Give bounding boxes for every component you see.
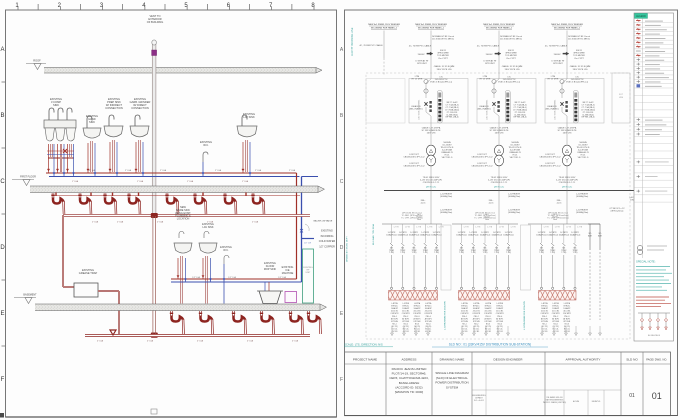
svg-text:1-TYB: 1-TYB (405, 227, 411, 229)
svg-text:INCOMING FDR PANEL-1: INCOMING FDR PANEL-1 (371, 27, 398, 30)
svg-text:(2R NO-2L): (2R NO-2L) (494, 187, 505, 189)
svg-text:100A/3P: 100A/3P (425, 307, 433, 310)
group 1 LT distribution bus (382, 223, 442, 225)
svg-text:SLD NO : 01 (33KV/415V DISTRIB: SLD NO : 01 (33KV/415V DISTRIBUTION SUB-… (449, 343, 531, 347)
vent cap (152, 50, 157, 56)
svg-text:100A/3P: 100A/3P (391, 307, 399, 310)
feeder column 3 metering arrow (483, 50, 517, 65)
svg-text:1" DIA: 1" DIA (187, 180, 194, 183)
svg-text:A: A (0, 47, 4, 53)
svg-text:TC: 1PH. (3P/DswtDsw): TC: 1PH. (3P/DswtDsw) (547, 217, 569, 220)
svg-text:L-BTPA: L-BTPA (541, 302, 548, 305)
group 1 outgoing circuit labels (391, 302, 433, 333)
group 2 branch breaker 5 (503, 224, 516, 289)
svg-text:L-BTPA: L-BTPA (497, 302, 504, 305)
svg-text:100A/3P: 100A/3P (541, 307, 549, 310)
group 3 LT busbar (hatched) (539, 291, 577, 301)
group 2 branch breaker 4 (492, 224, 505, 289)
svg-text:(BB-1 RATED): (BB-1 RATED) (546, 108, 559, 111)
svg-text:RE: ABMS 4F/LGB: RE: ABMS 4F/LGB (547, 396, 564, 399)
cold feed risers at mop sink (192, 276, 286, 291)
feeder column 2 metering arrow (415, 50, 449, 65)
legend transformer symbol cell (637, 245, 667, 254)
svg-text:[WRAPON TD: 0000]: [WRAPON TD: 0000] (395, 390, 423, 394)
svg-text:AT B1F1: AT B1F1 (425, 317, 432, 320)
svg-text:OF BUILDING: OF BUILDING (147, 20, 164, 24)
svg-text:LT MTR AT HT: LT MTR AT HT (551, 60, 565, 63)
svg-text:URE: URE (619, 97, 624, 99)
svg-text:BUS BAR: TPN 800A: BUS BAR: TPN 800A (372, 224, 375, 245)
sld title note (432, 343, 548, 348)
fixture: existing ice machine (282, 266, 297, 303)
page corner mark (0, 413, 4, 418)
group 1 LT busbar (hatched) (389, 291, 438, 301)
svg-text:MTR UNIT: MTR UNIT (485, 63, 495, 65)
approval authority sub-cells (543, 390, 621, 416)
svg-text:T: 4R): T: 4R) (434, 252, 439, 254)
fixture: existing wc lower (220, 246, 232, 304)
svg-text:C/W PB FLD C C1: C/W PB FLD C C1 (423, 182, 440, 184)
svg-text:100A(3P)sub: 100A(3P)sub (409, 233, 420, 236)
svg-text:COLD WATER: COLD WATER (319, 240, 336, 243)
transformer T2 nameplate text (471, 141, 522, 168)
transformer T2 LV cable text (488, 166, 510, 190)
HT switchgear panel at x=477 (477, 73, 536, 123)
svg-text:FIRST FLOOR: FIRST FLOOR (20, 176, 36, 179)
svg-text:NEW 4x1 95RM, 11KV FEEDER: NEW 4x1 95RM, 11KV FEEDER (483, 24, 515, 26)
supply stop valves (47, 169, 251, 175)
svg-text:100A(3P)sub: 100A(3P)sub (503, 233, 514, 236)
svg-text:L-BTPA: L-BTPA (564, 302, 571, 305)
design engineer sub-cells (472, 364, 545, 416)
svg-text:NEW 4x1 95RM, 11KV FEEDER: NEW 4x1 95RM, 11KV FEEDER (368, 24, 400, 26)
right sheet border frame (345, 10, 678, 416)
group 1 branch breaker 2 (398, 224, 411, 289)
group 1 branch breaker 1 (386, 224, 399, 289)
svg-text:11KV XLPE U/G: 11KV XLPE U/G (572, 69, 587, 71)
cable label above transformer T2 (490, 123, 510, 144)
svg-text:100A(3P)sub: 100A(3P)sub (456, 233, 467, 236)
svg-text:11KV 630A VCB PANEL: 11KV 630A VCB PANEL (486, 100, 489, 120)
svg-text:E/F REL (3B-4): E/F REL (3B-4) (514, 117, 527, 119)
svg-text:LEGEND: LEGEND (636, 15, 646, 18)
cable label above transformer T1 (422, 123, 442, 144)
svg-text:CABLE: 3C 95 SQMM: CABLE: 3C 95 SQMM (570, 65, 591, 68)
drop-end ground marks along bottom (391, 326, 602, 336)
svg-text:4C, 70 RM PVC CABLE: 4C, 70 RM PVC CABLE (477, 45, 500, 48)
fixture: existing garb grinder w/ direct connection (130, 97, 151, 177)
HT panel empty bay (366, 79, 405, 124)
svg-text:L-BTPA: L-BTPA (391, 302, 398, 305)
svg-text:AT B1F1: AT B1F1 (541, 317, 548, 320)
svg-text:NEW 4x1 95RM, 11KV FEEDER: NEW 4x1 95RM, 11KV FEEDER (551, 24, 583, 26)
svg-text:11KV U/G: 11KV U/G (563, 133, 572, 135)
svg-text:AT B1F1: AT B1F1 (461, 317, 468, 320)
fixture: new ware sink (174, 206, 192, 304)
drain labels basement (97, 340, 299, 343)
svg-text:11KV XLPE U/G: 11KV XLPE U/G (436, 69, 451, 71)
svg-text:CBI-B3x2/3mt 3PT+1x2: CBI-B3x2/3mt 3PT+1x2 (403, 156, 425, 159)
svg-text:4C, 70 RM PVC CABLE: 4C, 70 RM PVC CABLE (359, 44, 383, 47)
svg-text:GREASE TRAP: GREASE TRAP (79, 271, 98, 275)
svg-text:SAH ENGINEERING: SAH ENGINEERING (546, 399, 564, 402)
svg-text:1-TYB: 1-TYB (499, 227, 505, 229)
svg-text:1" DIA: 1" DIA (72, 180, 79, 183)
svg-text:(2R NO-2L): (2R NO-2L) (426, 187, 437, 189)
svg-text:(2R NO-2L): (2R NO-2L) (562, 187, 573, 189)
svg-text:T: 4R): T: 4R) (494, 252, 499, 254)
svg-text:11000V: 11000V (417, 54, 425, 56)
pipe size labels on mains (72, 169, 296, 183)
svg-text:11000V: 11000V (485, 54, 493, 56)
svg-text:1/2" COPPER: 1/2" COPPER (319, 245, 335, 248)
svg-text:100A(3P)sub: 100A(3P)sub (492, 233, 503, 236)
svg-text:1/2" CW: 1/2" CW (304, 243, 311, 245)
svg-text:T: 4R): T: 4R) (561, 252, 566, 254)
svg-text:CBI-B3x2/3mt 3PT+1x2: CBI-B3x2/3mt 3PT+1x2 (471, 165, 493, 168)
svg-text:PACIFIC JEANS (LIMITED): PACIFIC JEANS (LIMITED) (543, 401, 567, 404)
svg-text:L-BTPA: L-BTPA (414, 302, 421, 305)
title block headers (353, 357, 667, 361)
svg-text:11000V: 11000V (553, 54, 561, 56)
transformer T3 LV cable text (556, 166, 578, 190)
svg-text:BANGLADESH: BANGLADESH (399, 381, 420, 385)
group 3 LT distribution bus (528, 223, 588, 225)
fixture: existing hand sink (83, 114, 101, 177)
svg-text:VECTOR: D: VECTOR: D (578, 157, 589, 159)
cable label above transformer T3 (558, 123, 578, 144)
svg-text:LT MTR AT HT: LT MTR AT HT (483, 60, 497, 63)
svg-text:4-LT): 4-LT) (421, 203, 426, 205)
svg-text:4" DIA: 4" DIA (247, 340, 254, 343)
svg-text:(BB-1 RATED): (BB-1 RATED) (410, 108, 423, 111)
group 3 branch breaker 3 (559, 224, 572, 289)
feeder column 4 header (551, 24, 583, 30)
group 2 LT distribution bus (452, 223, 518, 225)
svg-text:SCALE: LTS, DIRECTION: N/S: SCALE: LTS, DIRECTION: N/S (344, 343, 383, 347)
waste branch header below slab (52, 193, 300, 197)
svg-text:2" DIA: 2" DIA (117, 221, 124, 224)
svg-text:MTR UNIT: MTR UNIT (417, 63, 427, 65)
svg-text:VCB LG Breaker/FR-Cu): VCB LG Breaker/FR-Cu) (430, 82, 452, 84)
svg-text:AT B1F1: AT B1F1 (473, 317, 480, 320)
svg-text:T: 4R): T: 4R) (550, 252, 555, 254)
svg-text:4-LT): 4-LT) (557, 203, 562, 205)
svg-text:2" DIA: 2" DIA (125, 169, 132, 172)
special note lines (636, 267, 672, 291)
svg-text:(3000A)(2km): (3000A)(2km) (576, 211, 589, 214)
p-traps below first floor slab (51, 193, 264, 214)
svg-text:1/2" DIA: 1/2" DIA (192, 276, 200, 279)
hot water main (red) first floor ceiling (46, 172, 297, 174)
group 2 branch breaker 1 (456, 224, 469, 289)
svg-text:BASEMENT: BASEMENT (23, 294, 37, 297)
svg-text:SINGLE LINE DIAGRAM: SINGLE LINE DIAGRAM (435, 371, 469, 375)
svg-text:2" DIA: 2" DIA (252, 221, 259, 224)
svg-text:T: 4R): T: 4R) (483, 252, 488, 254)
transformer T1 nameplate text (403, 141, 454, 168)
svg-text:SYSTEM: SYSTEM (446, 385, 459, 389)
feeder column 1 header (368, 24, 400, 30)
lower level stop valves (177, 276, 225, 281)
fixture: existing lav sink lower (199, 223, 217, 304)
svg-text:VCB LG Breaker/FR-Cu): VCB LG Breaker/FR-Cu) (498, 82, 520, 84)
svg-text:MTR UNIT: MTR UNIT (553, 63, 563, 65)
fixture: existing floor mop sink (257, 262, 283, 304)
svg-text:1-TYB: 1-TYB (544, 227, 550, 229)
svg-text:2" DIA: 2" DIA (160, 169, 167, 172)
svg-text:POWER DISTRIBUTION: POWER DISTRIBUTION (435, 381, 468, 385)
svg-text:SLD NO: SLD NO (626, 357, 638, 361)
svg-text:100A(3P)sub: 100A(3P)sub (386, 233, 397, 236)
svg-text:AT B1F1: AT B1F1 (563, 317, 570, 320)
title block (345, 352, 671, 416)
svg-text:100A(3P)sub: 100A(3P)sub (536, 233, 547, 236)
svg-text:HT CT MTR: HT CT MTR (412, 79, 423, 81)
svg-text:1" DIA: 1" DIA (137, 180, 144, 183)
svg-text:LOCATION: LOCATION (177, 218, 190, 221)
right-side spare drops (588, 224, 603, 320)
svg-text:(3000A)(2km): (3000A)(2km) (576, 195, 589, 198)
svg-text:DEPART: DEPART (475, 397, 483, 400)
svg-text:T: 4R): T: 4R) (506, 252, 511, 254)
svg-text:LAV SINK: LAV SINK (202, 226, 213, 229)
group 3 branch breaker 1 (536, 224, 549, 289)
svg-text:41C B1: 41C B1 (403, 331, 409, 333)
svg-text:T: 4R): T: 4R) (539, 252, 544, 254)
svg-text:CONNECTION: CONNECTION (105, 106, 123, 110)
fixture: existing lav sink upper (237, 112, 257, 177)
svg-text:L-2LTPA SPARE FDR 250A TPN: L-2LTPA SPARE FDR 250A TPN (523, 300, 526, 330)
svg-text:1-TYB: 1-TYB (511, 227, 517, 229)
main LT bus 415V (384, 190, 652, 192)
svg-text:100A(3P)sub: 100A(3P)sub (468, 233, 479, 236)
svg-text:T: 4R): T: 4R) (471, 252, 476, 254)
svg-text:(3000A)(2km): (3000A)(2km) (440, 195, 453, 198)
lower level hot main (171, 278, 297, 280)
svg-text:MK/APVD: MK/APVD (592, 400, 601, 403)
svg-text:AT B1F1: AT B1F1 (391, 317, 398, 320)
incoming cold water service (300, 220, 335, 249)
group 3 branch breaker 4 (570, 224, 583, 289)
legend rows (634, 20, 674, 137)
left sheet bottom border emphasis (6, 416, 337, 418)
svg-text:1-TYB: 1-TYB (555, 227, 561, 229)
sheet bottom center mark (151, 409, 157, 414)
svg-text:F: F (1, 377, 5, 383)
svg-text:ROOF: ROOF (33, 59, 41, 63)
svg-text:PACIFIC JEANS LIMITED: PACIFIC JEANS LIMITED (392, 367, 428, 371)
svg-text:E: E (0, 311, 4, 317)
svg-text:11KV 630A VCB PANEL: 11KV 630A VCB PANEL (554, 100, 557, 120)
svg-text:CABLE: 3C 95 SQMM: CABLE: 3C 95 SQMM (434, 65, 455, 68)
svg-text:T: 4R): T: 4R) (459, 252, 464, 254)
svg-text:100A(3P)sub: 100A(3P)sub (480, 233, 491, 236)
svg-text:100A(3P)sub: 100A(3P)sub (420, 233, 431, 236)
svg-text:41C B1: 41C B1 (462, 331, 468, 333)
svg-text:100A(3P)sub: 100A(3P)sub (431, 233, 442, 236)
cold water main (blue) first floor ceiling (49, 176, 300, 178)
svg-text:DRAWN BY: ENGG DEPT: DRAWN BY: ENGG DEPT (346, 236, 349, 262)
svg-text:CBI-B3x2/3mt 3PT+1x2: CBI-B3x2/3mt 3PT+1x2 (403, 165, 425, 168)
svg-text:1-TYB: 1-TYB (427, 227, 433, 229)
svg-text:(3P/DswtDsw): (3P/DswtDsw) (611, 210, 624, 213)
svg-text:4" DIA: 4" DIA (197, 340, 204, 343)
svg-text:MOP SINK: MOP SINK (264, 268, 277, 271)
fixture: existing water closet upper (200, 140, 212, 177)
svg-text:TC 4B41 (3P/DswtDsw): TC 4B41 (3P/DswtDsw) (474, 214, 495, 217)
svg-text:1-TYB: 1-TYB (416, 227, 422, 229)
basement datum marker (14, 294, 37, 304)
svg-text:INCOMING: INCOMING (321, 235, 334, 238)
feeder column 4 riser (545, 31, 591, 74)
svg-text:F: F (340, 377, 343, 383)
svg-text:CONNECTION: CONNECTION (131, 106, 149, 110)
svg-text:EXISTING: EXISTING (321, 230, 333, 233)
svg-text:E/F REL (3B-4): E/F REL (3B-4) (582, 117, 595, 119)
group 3 outgoing circuit labels (541, 302, 572, 333)
HT panel future bay (partial) (612, 73, 630, 123)
drain size labels (92, 221, 259, 224)
svg-text:(3000A)(2km): (3000A)(2km) (440, 211, 453, 214)
svg-text:AT B1F1: AT B1F1 (402, 317, 409, 320)
svg-text:D: D (340, 245, 344, 251)
feeder column 2 riser (409, 31, 455, 74)
group 2 branch breaker 2 (468, 224, 481, 289)
svg-text:APPROVAL AUTHORITY: APPROVAL AUTHORITY (566, 357, 601, 361)
svg-text:100A/3P: 100A/3P (563, 307, 571, 310)
svg-text:L-BTPA: L-BTPA (461, 302, 468, 305)
svg-text:1-TYB: 1-TYB (566, 227, 572, 229)
svg-text:SINK: SINK (53, 103, 59, 107)
svg-text:1-TYB: 1-TYB (394, 227, 400, 229)
svg-text:11KV HT INCOMING LINE: 11KV HT INCOMING LINE (351, 27, 354, 56)
basement cleanout fitting (110, 330, 116, 335)
svg-text:D: D (0, 245, 5, 251)
group 3 branch breaker 2 (547, 224, 560, 289)
svg-text:CEPZ, CHATTOGRAM-4223,: CEPZ, CHATTOGRAM-4223, (389, 376, 428, 380)
svg-text:L-2LTPA SPARE FDR 250A TPN: L-2LTPA SPARE FDR 250A TPN (444, 300, 447, 330)
bus right end drop (629, 191, 652, 213)
svg-text:1/2" DIA: 1/2" DIA (228, 276, 236, 279)
fixture: existing prep sink w/ indirect connection (104, 97, 123, 177)
svg-text:100A(3P)sub: 100A(3P)sub (559, 233, 570, 236)
3-comp sink waste tailpieces (48, 144, 74, 172)
svg-text:C: C (340, 179, 344, 185)
svg-text:4-LT): 4-LT) (489, 203, 494, 205)
svg-text:41C B1: 41C B1 (553, 331, 559, 333)
svg-text:VECTOR: D: VECTOR: D (510, 157, 521, 159)
svg-text:2" DIA: 2" DIA (255, 169, 262, 172)
group 3 feeder drop from bus (553, 191, 589, 225)
right sheet row letters (340, 47, 344, 383)
svg-text:2" DIA: 2" DIA (215, 169, 222, 172)
svg-text:LAV SINK: LAV SINK (243, 115, 255, 119)
svg-text:41C B1: 41C B1 (497, 331, 503, 333)
svg-text:BACKFLOW VALVE: BACKFLOW VALVE (314, 220, 333, 223)
svg-text:A/CHM: A/CHM (573, 400, 580, 403)
grease trap (74, 268, 98, 297)
svg-text:INCOMING FDR PANEL-1: INCOMING FDR PANEL-1 (554, 27, 581, 30)
svg-text:100A/3P: 100A/3P (496, 307, 504, 310)
svg-text:1/2" DIA: 1/2" DIA (278, 276, 286, 279)
grid row letters A-F (0, 47, 5, 383)
substation room boundary (dashed) (366, 73, 630, 339)
svg-text:SPECIAL NOTE:: SPECIAL NOTE: (636, 260, 656, 264)
svg-text:TC 4B41 (3P/DswtDsw): TC 4B41 (3P/DswtDsw) (547, 214, 568, 217)
svg-text:L-BTPA: L-BTPA (485, 302, 492, 305)
svg-text:100A/3P: 100A/3P (473, 307, 481, 310)
group 2 feeder drop from bus (485, 191, 521, 225)
svg-text:C: C (0, 179, 5, 185)
svg-text:L-BTPA: L-BTPA (425, 302, 432, 305)
svg-text:SINK: SINK (89, 120, 95, 124)
stack junction fitting upper (151, 213, 158, 218)
svg-text:TC: 1PH. (3P/DswtDsw): TC: 1PH. (3P/DswtDsw) (474, 217, 496, 220)
water heater unit (teal) (303, 249, 314, 303)
stack junction fitting lower (151, 333, 158, 338)
basement waste drain line (85, 334, 310, 337)
svg-text:INCOMING FDR PANEL-1: INCOMING FDR PANEL-1 (418, 27, 445, 30)
group 2 branch breaker 3 (480, 224, 493, 289)
svg-text:VECTOR: D: VECTOR: D (442, 157, 453, 159)
svg-text:4C, 70 RM PVC CABLE: 4C, 70 RM PVC CABLE (545, 45, 568, 48)
red caution note lines (636, 297, 671, 307)
svg-text:DRAWING NAME: DRAWING NAME (440, 357, 465, 361)
transformer T1 LV cable text (420, 166, 442, 190)
svg-text:(3000A)(2km): (3000A)(2km) (508, 195, 521, 198)
svg-text:01: 01 (629, 393, 635, 399)
soil stack lower run (153, 216, 156, 336)
roof level datum marker (26, 59, 46, 70)
svg-text:LT MTR AT HT: LT MTR AT HT (415, 60, 429, 63)
svg-text:L-BTPA: L-BTPA (403, 302, 410, 305)
svg-text:C/w CT/PT: C/w CT/PT (506, 58, 517, 60)
svg-text:L-BTPA: L-BTPA (553, 302, 560, 305)
svg-text:41C B1: 41C B1 (392, 331, 398, 333)
svg-text:HT CT MTR: HT CT MTR (480, 79, 491, 81)
svg-text:AT B1F1: AT B1F1 (496, 317, 503, 320)
group 1 branch breaker 4 (420, 224, 433, 289)
svg-text:C/w CT/PT: C/w CT/PT (574, 58, 585, 60)
svg-text:2" DIA: 2" DIA (92, 221, 99, 224)
group 1 feeder drop from bus (417, 191, 453, 225)
svg-text:L-BTPA: L-BTPA (473, 302, 480, 305)
grease trap outlet pipe (98, 291, 119, 336)
svg-text:CBI-B3x2/3mt 3PT+1x2: CBI-B3x2/3mt 3PT+1x2 (539, 165, 561, 168)
group 2 outgoing circuit labels (461, 302, 505, 333)
svg-text:41C B1: 41C B1 (425, 331, 431, 333)
svg-text:41C B1: 41C B1 (542, 331, 548, 333)
svg-text:CBI-B3x2/3mt 3PT+1x2: CBI-B3x2/3mt 3PT+1x2 (471, 156, 493, 159)
svg-text:DESIGN ENGINEER: DESIGN ENGINEER (494, 357, 524, 361)
lower level cold main (171, 281, 302, 283)
svg-text:PROJECT NAME: PROJECT NAME (353, 357, 377, 361)
HT switchgear panel at x=409 (409, 73, 468, 123)
svg-text:100A/3P: 100A/3P (402, 307, 410, 310)
feeder 1 stub (future) (359, 31, 384, 77)
svg-text:1-TYB: 1-TYB (577, 227, 583, 229)
feeder column 3 riser (477, 31, 523, 74)
svg-text:4" DIA: 4" DIA (97, 340, 104, 343)
svg-text:TC: 1PH. (3P/DswtDsw): TC: 1PH. (3P/DswtDsw) (401, 217, 423, 220)
feeder column 3 header (483, 24, 515, 30)
basement slab band (35, 304, 327, 311)
svg-text:11KV U/G: 11KV U/G (427, 133, 436, 135)
grid column numbers 1-8 (15, 3, 315, 10)
svg-text:2" DIA: 2" DIA (289, 169, 296, 172)
svg-text:41C B1: 41C B1 (564, 331, 570, 333)
